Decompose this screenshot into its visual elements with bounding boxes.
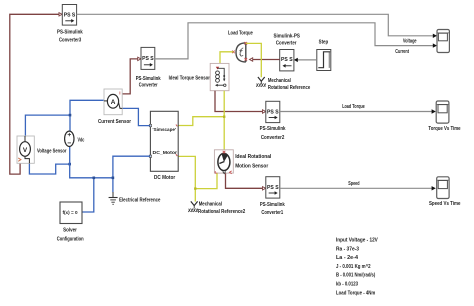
- svg-text:V: V: [23, 147, 28, 154]
- svg-text:Motion Sensor: Motion Sensor: [235, 164, 268, 170]
- svg-text:f(x) = 0: f(x) = 0: [62, 210, 77, 216]
- svg-text:A: A: [111, 99, 116, 106]
- svg-text:Current Sensor: Current Sensor: [98, 119, 131, 125]
- op-amp U_c2: PS-Simulink Converter2: [260, 101, 286, 141]
- svg-text:Current: Current: [395, 49, 409, 55]
- svg-text:Rotational Reference: Rotational Reference: [268, 85, 310, 91]
- svg-text:PS S: PS S: [267, 109, 279, 115]
- block Solver Configuration: [57, 202, 84, 243]
- svg-text:Converter: Converter: [139, 82, 158, 88]
- svg-text:Rotational Reference2: Rotational Reference2: [198, 209, 245, 215]
- svg-text:DC Motor: DC Motor: [154, 175, 175, 181]
- component: Current Sensor: [98, 89, 131, 125]
- wire: current sensor to DC motor (blue): [122, 108, 150, 125]
- svg-text:Voltage: Voltage: [403, 38, 417, 44]
- svg-text:Step: Step: [319, 40, 329, 46]
- wire: DC motor C to motion sensor W / reference2 (yellow): [178, 156, 217, 188]
- wire: voltage sensor top to Vdc node (blue): [25, 115, 70, 136]
- svg-text:Load Torque: Load Torque: [228, 30, 253, 36]
- op-amp U_c1: PS-Simulink Converter1: [260, 177, 285, 217]
- wire: Load Torque C to mech reference1 (yellow): [246, 43, 261, 77]
- svg-text:PS-Simulink: PS-Simulink: [260, 126, 286, 132]
- ground: Electrical Reference: [109, 192, 161, 204]
- scope Scope1 voltage/current: [437, 30, 449, 53]
- svg-text:PS S: PS S: [267, 185, 279, 191]
- svg-text:PS-Simulink: PS-Simulink: [57, 29, 83, 35]
- wire: Step to Simulink-PS Converter gray: [297, 59, 317, 61]
- svg-text:'Simscape': 'Simscape': [153, 127, 177, 133]
- svg-text:Ideal Torque Sensor: Ideal Torque Sensor: [169, 75, 210, 81]
- op-amp U_c0: PS-Simulink Converter: [136, 47, 161, 88]
- node: mech junction: [194, 187, 196, 189]
- svg-text:Vdc: Vdc: [78, 138, 85, 144]
- wire: torque sensor T output to Converter2 (maroon): [215, 91, 263, 112]
- wire: Converter2 to Torque scope gray: [280, 111, 433, 113]
- component: Voltage Sensor: [17, 136, 67, 163]
- svg-text:kb - 0.0123: kb - 0.0123: [336, 282, 358, 288]
- svg-text:Converter1: Converter1: [261, 210, 283, 216]
- svg-text:Load Torque - 4Nm: Load Torque - 4Nm: [336, 290, 376, 296]
- wire: Converter to Scope1 port2 gray Current signal: [155, 23, 434, 59]
- svg-text:Mechanical: Mechanical: [268, 78, 291, 84]
- svg-text:Converter3: Converter3: [59, 38, 81, 44]
- wire: Simulink-PS to Load Torque S port (maroon): [253, 59, 280, 61]
- wire: Vdc plus to current sensor (blue): [70, 100, 104, 131]
- svg-text:Solver: Solver: [63, 228, 77, 234]
- svg-text:PS S: PS S: [64, 13, 76, 19]
- component: Ideal Torque Sensor: [169, 63, 229, 90]
- node: junction dot: [68, 163, 71, 166]
- node: junction dots: [93, 177, 96, 180]
- svg-text:Converter: Converter: [276, 40, 297, 46]
- svg-text:B - 0.001 Nm/(rad/s): B - 0.001 Nm/(rad/s): [336, 273, 376, 279]
- svg-text:Load Torque: Load Torque: [342, 104, 365, 110]
- wire: DC motor R to shaft net (yellow): [178, 117, 224, 126]
- svg-text:Input Voltage - 12V: Input Voltage - 12V: [336, 238, 378, 244]
- svg-text:PS-Simulink: PS-Simulink: [260, 202, 285, 208]
- svg-text:Ideal Rotational: Ideal Rotational: [235, 154, 272, 160]
- svg-text:La - 2e-4: La - 2e-4: [336, 255, 358, 261]
- node: junction dot: [69, 114, 72, 117]
- svg-text:Torque Vs Time: Torque Vs Time: [428, 126, 460, 132]
- svg-text:Voltage Sensor: Voltage Sensor: [37, 148, 67, 154]
- scope Torque Vs Time: [428, 101, 460, 132]
- svg-text:PS S: PS S: [281, 57, 293, 63]
- ground: Mechanical Rotational Reference2: [188, 201, 245, 215]
- wire: motion sensor W output to Converter1 (maroon): [226, 173, 263, 188]
- wire: voltage sensor bottom to Vdc minus (blue): [29, 163, 69, 174]
- block Step: [317, 40, 331, 71]
- wire: bottom electrical bus (blue): [70, 146, 113, 177]
- wire: bus to solver config (blue): [82, 178, 94, 212]
- wire: shaft net yellow torque sensor C down to motion sensor: [223, 91, 225, 150]
- svg-text:Mechanical: Mechanical: [199, 202, 223, 208]
- wire: voltage sensor PS output to Converter3 (maroon): [10, 14, 60, 174]
- wire: Load Torque R to torque sensor top (yellow): [220, 52, 233, 64]
- svg-text:J - 0.001 Kg m^2: J - 0.001 Kg m^2: [336, 264, 371, 270]
- svg-text:Configuration: Configuration: [57, 237, 84, 243]
- svg-text:Ra - 37e-3: Ra - 37e-3: [336, 246, 359, 252]
- op-amp U_sps: Simulink-PS Converter: [274, 33, 301, 71]
- node: shaft junction: [223, 116, 225, 118]
- wire: bus to DC motor minus (blue): [113, 156, 150, 178]
- component: Load Torque ideal torque source: [228, 30, 253, 62]
- svg-text:Speed Vs Time: Speed Vs Time: [429, 201, 461, 207]
- svg-text:PS-Simulink: PS-Simulink: [136, 76, 161, 82]
- svg-text:Speed: Speed: [348, 181, 359, 187]
- svg-text:DC_Motor: DC_Motor: [153, 150, 178, 156]
- svg-text:Simulink-PS: Simulink-PS: [274, 33, 301, 39]
- op-amp U_c3: PS-Simulink Converter3: [57, 5, 83, 44]
- svg-text:i: i: [119, 90, 120, 95]
- component: Ideal Rotational Motion Sensor: [214, 150, 271, 174]
- ground: Mechanical Rotational Reference: [256, 77, 310, 91]
- svg-text:PS S: PS S: [142, 56, 154, 62]
- component: Vdc source: [65, 131, 85, 146]
- wire: Converter3 to Scope1 port1 gray Voltage signal: [77, 14, 434, 36]
- svg-text:Converter2: Converter2: [261, 135, 285, 141]
- wire: bus to electrical reference (blue): [112, 178, 114, 193]
- node: model parameter annotation: [336, 238, 378, 297]
- wire: current sensor PS output to Converter (maroon): [122, 59, 138, 94]
- wire: Converter1 to Speed scope gray: [280, 187, 433, 189]
- block DC Motor Simscape subsystem: [149, 111, 178, 181]
- svg-text:Electrical Reference: Electrical Reference: [119, 198, 160, 204]
- scope Speed Vs Time: [429, 177, 461, 207]
